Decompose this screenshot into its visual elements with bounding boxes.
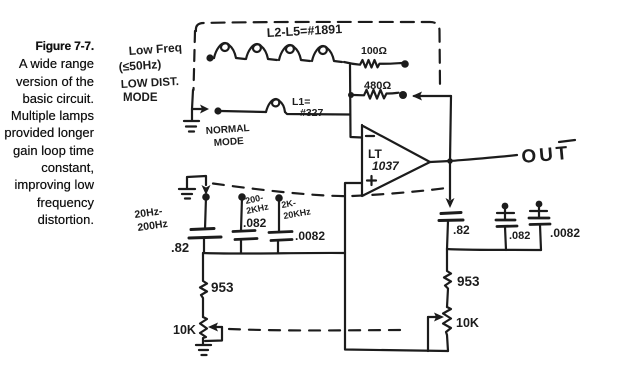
- svg-text:.082: .082: [509, 230, 530, 242]
- svg-text:10K: 10K: [173, 323, 196, 337]
- svg-text:L2-L5=#1891: L2-L5=#1891: [266, 22, 342, 40]
- svg-text:.82: .82: [171, 240, 189, 255]
- svg-text:NORMAL: NORMAL: [205, 123, 250, 137]
- svg-text:Low Freq: Low Freq: [128, 40, 182, 58]
- svg-text:480Ω: 480Ω: [364, 80, 391, 92]
- svg-text:.82: .82: [453, 223, 470, 237]
- svg-text:LOW DIST.: LOW DIST.: [121, 76, 180, 91]
- svg-text:MODE: MODE: [213, 136, 244, 149]
- svg-text:953: 953: [211, 280, 234, 295]
- svg-text:.0082: .0082: [295, 229, 325, 243]
- svg-text:.082: .082: [243, 216, 267, 230]
- svg-text:(≤50Hz): (≤50Hz): [118, 57, 161, 74]
- svg-text:OUT: OUT: [521, 143, 572, 168]
- svg-text:200Hz: 200Hz: [137, 218, 169, 234]
- svg-text:#327: #327: [300, 107, 324, 119]
- svg-text:1037: 1037: [372, 159, 400, 173]
- svg-text:953: 953: [457, 274, 480, 289]
- svg-text:100Ω: 100Ω: [361, 45, 387, 57]
- svg-text:MODE: MODE: [123, 92, 158, 104]
- svg-text:10K: 10K: [456, 316, 479, 330]
- svg-text:.0082: .0082: [550, 226, 580, 240]
